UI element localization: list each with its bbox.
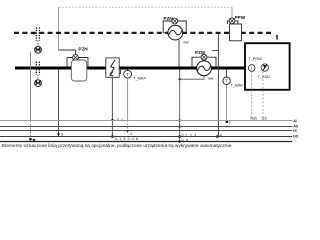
svg-text:T_MAX: T_MAX xyxy=(133,77,146,81)
svg-text:PZH: PZH xyxy=(79,46,89,51)
svg-text:ww: ww xyxy=(183,41,189,45)
svg-text:T: T xyxy=(126,72,129,77)
svg-text:PPW: PPW xyxy=(235,15,246,20)
svg-text:AO: AO xyxy=(293,125,298,129)
svg-text:ww: ww xyxy=(208,76,214,80)
svg-text:AI: AI xyxy=(293,119,296,123)
svg-text:2: 2 xyxy=(130,132,132,136)
svg-text:0, 1, 2, 3: 0, 1, 2, 3 xyxy=(182,134,197,138)
svg-text:T_ZAD: T_ZAD xyxy=(258,74,271,79)
svg-text:Elementy oznaczone linią przer: Elementy oznaczone linią przerywaną są o… xyxy=(2,143,232,149)
svg-text:T_POM: T_POM xyxy=(248,56,261,61)
svg-text:T: T xyxy=(225,79,228,84)
svg-text:0, 1, 3, 2, 4, 6: 0, 1, 3, 2, 4, 6 xyxy=(115,137,138,141)
svg-text:DI: DI xyxy=(293,129,296,133)
svg-text:DO: DO xyxy=(293,135,298,139)
svg-text:T_NAW: T_NAW xyxy=(231,84,244,88)
